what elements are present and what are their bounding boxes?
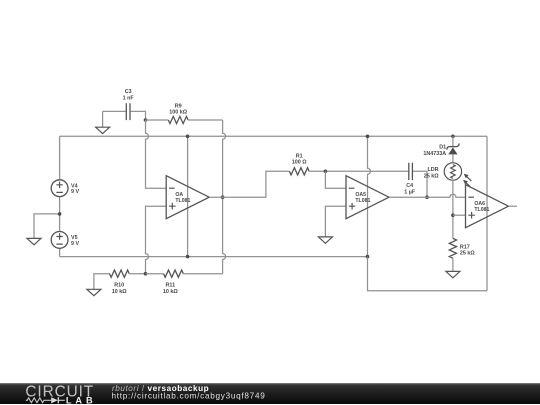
node: OA V+ on top rail (186, 135, 190, 139)
svg-text:9 V: 9 V (71, 241, 79, 247)
node: OA5 V+ on top rail (366, 135, 370, 139)
svg-text:TL081: TL081 (474, 207, 489, 213)
wire: OA5 power pins vertical (hops R1 row) (368, 136, 371, 256)
svg-text:TL081: TL081 (175, 198, 190, 204)
svg-text:LAB: LAB (66, 396, 97, 405)
svg-text:25 kΩ: 25 kΩ (460, 251, 475, 257)
wire: C4 right lead down to output row (413, 171, 427, 197)
wire: LDR bottom to R17 (452, 180, 454, 238)
ground GND at C3 (96, 127, 110, 133)
wire: OA power pins vertical (187, 136, 189, 256)
wire: OA5 non-inverting to ground (325, 206, 346, 237)
node: OA V- on -9V rail (186, 255, 190, 259)
svg-text:9 V: 9 V (71, 189, 79, 195)
wire: R17 to ground (452, 258, 454, 271)
voltage source V5 (51, 232, 79, 249)
resistor R10 (110, 270, 130, 295)
wire: OA5 V- down and bottom rail to OA6 (368, 257, 488, 291)
wire: mid ground branch (34, 214, 60, 239)
svg-text:10 kΩ: 10 kΩ (163, 289, 178, 295)
wire: output vertical R9/output net (hops two rails) (223, 120, 226, 274)
wire: feedback vertical to inverting input (hops top rail) (146, 120, 167, 188)
node: R10/R11 divider junction (144, 272, 148, 276)
resistor R11 (163, 270, 183, 295)
wire: D1 anode to LDR (452, 154, 454, 163)
svg-text:http://circuitlab.com/cabgy3uq: http://circuitlab.com/cabgy3uqf8749 (112, 392, 266, 401)
wire: C3 left lead (103, 110, 126, 112)
svg-text:TL081: TL081 (355, 198, 370, 204)
node: V4/V5 midpoint junction (58, 212, 62, 216)
ground GND mid-supply (27, 238, 41, 244)
wire: C3 ground stub (102, 111, 104, 127)
svg-text:1N4733A: 1N4733A (423, 151, 446, 157)
ground GND at R17 (446, 271, 460, 277)
svg-text:1 nF: 1 nF (123, 95, 135, 101)
svg-text:R9: R9 (175, 103, 182, 109)
svg-text:100 Ω: 100 Ω (292, 160, 307, 166)
svg-text:R11: R11 (166, 282, 176, 288)
op-amp OA5 TL081 (346, 176, 389, 219)
wire: V4 top riser (59, 136, 61, 180)
wire: C3 right lead to junction (131, 111, 146, 120)
op-amp OA6 TL081 (466, 185, 509, 228)
wire: R9 right lead (188, 119, 223, 121)
wire: R11 right lead (183, 273, 222, 275)
wire: OA6 plus input branch (453, 214, 466, 216)
capacitor C4 (404, 163, 416, 196)
logo motif: diode (46, 399, 65, 401)
svg-text:100 kΩ: 100 kΩ (169, 110, 187, 116)
ground GND at OA5 + input (318, 237, 332, 243)
wire: R11 left lead (146, 273, 164, 275)
wire: top +9V rail (60, 135, 487, 137)
wire: -9V rail (60, 256, 368, 258)
wire: R10 right lead (129, 273, 145, 275)
node: R1/OA5 minus junction (324, 170, 328, 174)
wire: R9 left lead (146, 119, 169, 121)
node: LDR/R17/OA6 plus junction (451, 213, 455, 217)
wire: R1 right lead to C4 (309, 170, 408, 172)
wire: OA output to R1 (209, 171, 289, 197)
svg-text:R1: R1 (296, 154, 303, 160)
svg-text:LDR: LDR (428, 167, 439, 173)
wire: OA6 power pins vertical (486, 136, 488, 290)
resistor R9 (168, 103, 188, 123)
svg-text:10 kΩ: 10 kΩ (112, 289, 127, 295)
node: C3/R9/inverting-input junction (144, 118, 148, 122)
wire: R10 ground riser and left lead (94, 274, 110, 290)
ground GND at R10 (87, 289, 101, 295)
resistor R17 (449, 238, 475, 258)
wire: OA5 inverting branch (325, 171, 346, 188)
resistor R1 (289, 154, 309, 175)
svg-text:R10: R10 (114, 282, 124, 288)
wire: rail to D1 cathode (452, 136, 454, 146)
svg-text:R17: R17 (460, 244, 470, 250)
diode D1 1N4733A (zener) (423, 143, 459, 157)
node: C4/OA5 output junction (425, 195, 429, 199)
node: OA5 V- on -9V rail (366, 255, 370, 259)
svg-text:25 kΩ: 25 kΩ (424, 173, 439, 179)
svg-text:D1: D1 (439, 145, 446, 151)
node: OA output junction (221, 195, 225, 199)
svg-text:C3: C3 (125, 89, 132, 95)
wire: OA5 output to OA6 minus (hops LDR column) (389, 194, 466, 197)
wire: V5 bottom drop (59, 248, 61, 256)
wire: OA6 output stub (509, 205, 518, 207)
photoresistor LDR 25k (424, 163, 472, 187)
wire: V4-V5 link (59, 197, 61, 232)
op-amp OA TL081 (166, 176, 209, 219)
logo motif: resistor (26, 398, 46, 403)
svg-text:C4: C4 (406, 183, 413, 189)
capacitor C3 (123, 89, 135, 120)
node: D1 top on +9V rail (451, 135, 455, 139)
wire: OA non-inverting input branch (hops -9V rail) (146, 206, 167, 274)
svg-text:1 µF: 1 µF (404, 189, 416, 195)
footer bar (0, 383, 540, 404)
voltage source V4 (51, 180, 79, 197)
